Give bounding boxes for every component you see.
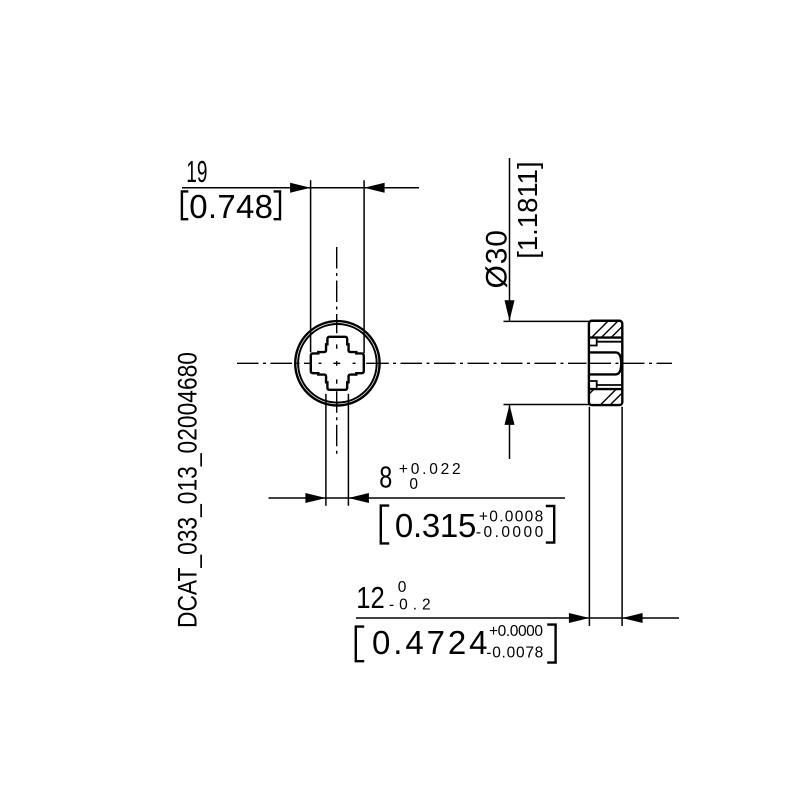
- svg-text:DCAT_033_013_02004680: DCAT_033_013_02004680: [173, 352, 203, 628]
- notch upper: [589, 339, 597, 346]
- svg-text:0: 0: [409, 476, 418, 493]
- svg-text:+0.0000: +0.0000: [489, 623, 543, 640]
- svg-text:0.315: 0.315: [395, 507, 476, 544]
- extension line right (12 dim): [621, 407, 623, 626]
- extension line left (19 dim): [310, 180, 312, 352]
- hatch top 3: [611, 327, 622, 338]
- dimension line d30 lower: [509, 404, 511, 459]
- notch lower: [589, 381, 597, 388]
- svg-text:Ø30: Ø30: [481, 230, 514, 289]
- inner line F: [597, 384, 622, 386]
- arrow right (8 dim): [348, 493, 369, 503]
- hatch bottom 0: [589, 389, 594, 394]
- outer circle (front view, Ø30): [295, 321, 379, 405]
- arrow right (12 dim): [622, 613, 643, 623]
- hatch top 2: [602, 322, 618, 338]
- dimension line 19: [182, 187, 419, 189]
- arrow down (d30 dim): [505, 300, 515, 321]
- side view body outline: [589, 321, 622, 405]
- svg-text:19: 19: [186, 154, 207, 189]
- hatch bottom 2: [610, 393, 622, 405]
- extension line right (19 dim): [363, 180, 365, 353]
- arrow up (d30 dim): [505, 404, 515, 425]
- arrow left (12 dim): [569, 613, 590, 623]
- bracket [ (0.748): [182, 191, 188, 219]
- dimension line 8: [269, 497, 566, 499]
- vertical center line (front view): [336, 247, 338, 454]
- arrow left (19 dim): [290, 183, 311, 193]
- extension line left (12 dim): [588, 407, 590, 626]
- arrow right (19 dim): [364, 183, 385, 193]
- dimension line d30 upper: [509, 158, 511, 321]
- extension line right (8 dim): [347, 394, 349, 506]
- bracket [ (0.4724): [356, 627, 364, 662]
- bracket ] (0.4724): [547, 625, 555, 663]
- slot tip edge line E: [589, 388, 622, 390]
- dimension line 12: [356, 617, 679, 619]
- svg-text:0.748: 0.748: [189, 188, 273, 225]
- extension line left (8 dim): [325, 394, 327, 506]
- slot profile (horizontal arm section): [589, 352, 621, 374]
- slot tip edge line A: [589, 336, 622, 338]
- svg-text:12: 12: [356, 580, 385, 615]
- bracket [ (0.315): [381, 506, 389, 544]
- svg-text:-0.0078: -0.0078: [486, 644, 543, 661]
- inner circle (chamfer): [298, 324, 377, 403]
- svg-text:8: 8: [379, 460, 392, 495]
- svg-text:0: 0: [398, 579, 407, 596]
- inner line B: [597, 341, 622, 343]
- arrow left (8 dim): [305, 493, 326, 503]
- extension line bottom (d30 dim): [504, 404, 590, 406]
- svg-text:[1.1811]: [1.1811]: [512, 161, 543, 258]
- svg-text:0.4724: 0.4724: [372, 624, 488, 661]
- extension line top (d30 dim): [504, 320, 590, 322]
- bracket ] (0.748): [274, 191, 280, 219]
- bracket ] (0.315): [546, 506, 554, 543]
- horizontal center line (both views): [237, 362, 672, 364]
- hatch top 1: [592, 322, 608, 338]
- hatch bottom 1: [601, 389, 617, 405]
- cross slot outline: [311, 337, 364, 390]
